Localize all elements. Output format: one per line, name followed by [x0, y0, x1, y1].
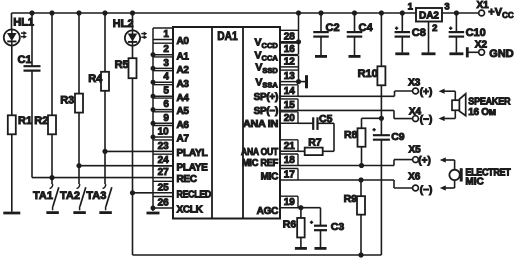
label C2	[326, 22, 340, 34]
svg-text:10: 10	[158, 127, 170, 138]
switch TA3	[99, 184, 112, 213]
label X6 minus	[420, 185, 433, 196]
wire top supply rail	[12, 12, 479, 14]
microphone BM1	[449, 168, 461, 181]
svg-text:28: 28	[284, 31, 296, 42]
polarity C8	[395, 27, 398, 30]
resistor R8	[358, 128, 366, 147]
svg-text:RECLED: RECLED	[177, 189, 212, 200]
svg-text:XCLK: XCLK	[177, 205, 204, 216]
svg-text:A1: A1	[177, 51, 190, 62]
node A-bus pin 9	[151, 121, 156, 126]
wire R10 down	[380, 85, 382, 135]
svg-text:2: 2	[432, 23, 437, 34]
svg-text:X1: X1	[476, 0, 489, 11]
svg-text:9: 9	[163, 113, 169, 124]
svg-text:1: 1	[408, 2, 414, 13]
wire node to pin25	[133, 192, 154, 194]
node R9 bottom	[358, 252, 363, 257]
terminal X5	[413, 157, 419, 163]
node RECLED	[130, 190, 135, 195]
pin names right	[241, 37, 278, 217]
label C9	[391, 131, 405, 143]
svg-text:R10: R10	[358, 68, 378, 80]
svg-text:14: 14	[284, 86, 296, 97]
svg-text:TA3: TA3	[86, 190, 106, 202]
label HL2	[113, 18, 134, 30]
polarity C3	[310, 221, 313, 224]
svg-text:A5: A5	[177, 106, 190, 117]
LED HL1	[4, 30, 27, 46]
node rail-C1	[29, 10, 34, 15]
node rail-R3	[76, 10, 81, 15]
wire C5-R7	[318, 123, 335, 151]
capacitor C3	[314, 226, 327, 231]
wire C1 top lead	[31, 13, 33, 66]
wire C9 down	[380, 140, 382, 255]
pin 1 DA2	[408, 2, 414, 13]
resistor R2	[48, 115, 56, 134]
svg-text:20: 20	[284, 113, 296, 124]
svg-text:X2: X2	[475, 39, 488, 50]
ground XCLK	[147, 208, 160, 213]
svg-text:(+): (+)	[420, 87, 433, 98]
svg-text:C9: C9	[391, 131, 405, 143]
terminal X4	[413, 116, 419, 122]
label X3 plus	[420, 87, 433, 98]
wire SP- to X4	[298, 110, 413, 118]
resistor R10	[377, 66, 385, 85]
svg-text:C2: C2	[326, 22, 340, 34]
wire pin19	[298, 207, 321, 209]
node rail-pin28	[296, 10, 301, 15]
wire R2-TA1	[51, 134, 53, 184]
node rail-C4	[352, 10, 357, 15]
svg-text:MIC: MIC	[261, 172, 279, 183]
node rail-R2	[49, 10, 54, 15]
wire SP+ to X3	[298, 91, 413, 96]
label X3	[408, 78, 421, 89]
wire R6 bottom	[300, 238, 302, 248]
node A-bus pin 10	[151, 135, 156, 140]
wire rail-R3	[78, 13, 80, 94]
svg-text:(−): (−)	[420, 115, 433, 126]
wire R7-pin21	[298, 150, 305, 152]
wire node to pin24	[79, 165, 153, 167]
wire rail-R10	[380, 13, 382, 66]
label C1	[18, 54, 32, 66]
ground R6	[295, 247, 307, 250]
label R2	[34, 115, 48, 127]
capacitor C1	[24, 66, 41, 70]
capacitor C4	[347, 32, 363, 37]
svg-text:C3: C3	[331, 221, 345, 233]
op-amp U1 DA1 body	[173, 27, 280, 219]
label X1	[476, 0, 489, 11]
wire R1-gnd	[11, 134, 13, 211]
switch TA2	[73, 184, 86, 213]
node R10-R8-C9	[379, 116, 384, 121]
ground C4	[349, 55, 361, 58]
svg-text:A6: A6	[177, 120, 190, 131]
label R7	[308, 136, 322, 148]
svg-text:R4: R4	[88, 73, 103, 85]
svg-text:R3: R3	[60, 95, 74, 107]
svg-text:DA2: DA2	[419, 11, 439, 22]
capacitor C10	[449, 32, 465, 37]
svg-text:HL2: HL2	[113, 18, 134, 30]
node REC	[49, 175, 54, 180]
wire C3 top lead	[320, 208, 322, 226]
node rail-R4	[102, 10, 107, 15]
node A-bus pin 5	[151, 94, 156, 99]
resistor R7	[305, 148, 323, 156]
wire HL1 branch	[11, 13, 13, 30]
label DA1	[217, 29, 238, 43]
label C4	[359, 22, 374, 34]
svg-text:SP(−): SP(−)	[254, 106, 278, 117]
svg-text:2: 2	[163, 44, 169, 55]
svg-text:13: 13	[284, 71, 296, 82]
node A-bus pin 3	[151, 66, 156, 71]
svg-text:26: 26	[158, 198, 170, 209]
node rail-C2	[318, 10, 323, 15]
node XCLK gnd	[151, 206, 156, 211]
label +Vcc	[488, 7, 514, 20]
label TA3	[86, 190, 106, 202]
terminal X3	[413, 88, 419, 94]
resistor R9	[357, 196, 365, 215]
wire bottom rail	[133, 254, 382, 256]
node R8-MICREF	[359, 163, 364, 168]
resistor R5	[129, 58, 137, 78]
switch TA1	[46, 184, 59, 213]
label C10	[466, 27, 486, 39]
svg-text:R2: R2	[34, 115, 48, 127]
label GND	[489, 48, 514, 60]
wire R5 down	[132, 78, 134, 255]
resistor R3	[75, 94, 83, 113]
capacitor C8	[395, 32, 411, 37]
svg-text:PLAYE: PLAYE	[177, 162, 209, 173]
node pin13	[296, 79, 301, 84]
ground C10	[449, 52, 463, 55]
ground DA2	[422, 52, 436, 55]
svg-text:R1: R1	[18, 115, 32, 127]
label R10	[358, 68, 378, 80]
node A-bus pin 4	[151, 80, 156, 85]
node pin28	[296, 39, 301, 44]
label TA1	[33, 190, 53, 202]
svg-text:TA2: TA2	[60, 190, 80, 202]
ground C8	[395, 52, 409, 55]
svg-text:A7: A7	[177, 134, 190, 145]
label C8	[412, 27, 426, 39]
svg-text:ANA IN: ANA IN	[243, 119, 278, 130]
svg-text:3: 3	[444, 2, 449, 13]
svg-text:24: 24	[158, 155, 170, 166]
svg-text:(−): (−)	[420, 185, 433, 196]
wire R9 top lead	[360, 180, 362, 196]
svg-text:25: 25	[158, 182, 170, 193]
svg-text:REC: REC	[177, 174, 197, 185]
capacitor C5	[313, 117, 317, 130]
wire HL1-R1	[11, 46, 13, 116]
svg-text:MIC REF: MIC REF	[242, 158, 278, 169]
node A-bus pin 6	[151, 107, 156, 112]
wire VSS tie	[298, 55, 300, 81]
wire MICREF to X5	[298, 160, 413, 166]
node PLAYL	[102, 149, 107, 154]
node PLAYE	[76, 163, 81, 168]
svg-text:27: 27	[158, 167, 170, 178]
pin names left	[177, 36, 212, 216]
svg-text:3: 3	[163, 58, 169, 69]
speaker SPEAKER	[452, 94, 466, 116]
speaker arrows	[439, 89, 456, 122]
svg-text:X6: X6	[408, 172, 421, 183]
terminal X1	[479, 10, 485, 16]
wire C8 leads	[401, 13, 403, 52]
wire REC node to pin27	[53, 177, 153, 179]
label R1	[18, 115, 32, 127]
svg-text:5: 5	[163, 86, 169, 97]
node rail-C8	[400, 10, 405, 15]
svg-text:6: 6	[163, 99, 169, 110]
svg-text:HL1: HL1	[13, 17, 34, 29]
svg-text:A4: A4	[177, 93, 190, 104]
svg-text:MIC: MIC	[465, 177, 483, 188]
svg-text:16 Ом: 16 Ом	[468, 107, 496, 118]
wire C2 leads	[320, 13, 322, 55]
svg-text:18: 18	[284, 155, 296, 166]
node rail-C10	[454, 10, 459, 15]
polarity C10	[449, 27, 452, 30]
wire pin20-C5	[298, 122, 313, 124]
wire node to pin23	[105, 150, 153, 152]
svg-text:17: 17	[284, 170, 296, 181]
node AGC	[298, 205, 303, 210]
label R9	[344, 193, 358, 205]
svg-text:19: 19	[284, 197, 296, 208]
svg-text:PLAYL: PLAYL	[177, 148, 208, 159]
wire R6 top lead	[300, 208, 302, 218]
svg-text:15: 15	[284, 100, 296, 111]
svg-text:SP(+): SP(+)	[254, 92, 278, 103]
wire R8 bottom lead	[361, 147, 363, 166]
svg-text:C1: C1	[18, 54, 32, 66]
pin 2 DA2	[432, 23, 437, 34]
svg-text:R9: R9	[344, 193, 358, 205]
svg-text:ANA OUT: ANA OUT	[241, 147, 278, 158]
svg-text:1: 1	[163, 29, 169, 40]
polarity C9	[372, 128, 375, 131]
label X5 plus	[418, 155, 431, 166]
svg-text:16: 16	[284, 44, 296, 55]
svg-text:C10: C10	[466, 27, 486, 39]
ground C2	[315, 55, 327, 58]
svg-text:DA1: DA1	[217, 29, 238, 43]
label X4 minus	[420, 115, 433, 126]
pin 3 DA2	[444, 2, 449, 13]
svg-text:4: 4	[163, 72, 169, 83]
node rail-HL2	[130, 10, 135, 15]
svg-text:(+): (+)	[418, 155, 431, 166]
pin numbers right	[284, 31, 296, 208]
wire C1 to REC node	[32, 71, 51, 178]
wire R4-TA3	[104, 91, 106, 184]
label R5	[115, 59, 129, 71]
label C3	[331, 221, 345, 233]
node R9-MIC	[358, 177, 363, 182]
label R8	[344, 129, 358, 141]
svg-text:C8: C8	[412, 27, 426, 39]
label C5	[319, 113, 333, 125]
wire DA2 pin2	[428, 22, 430, 53]
svg-text:R8: R8	[344, 129, 358, 141]
label MIC	[465, 177, 483, 188]
wire C3 bottom	[320, 230, 322, 247]
electret mic arrows	[440, 157, 455, 190]
svg-text:A2: A2	[177, 65, 190, 76]
terminal X2	[467, 47, 484, 57]
ground R1	[3, 212, 20, 215]
label ELECTRET	[465, 168, 510, 179]
wire R9 bottom lead	[360, 215, 362, 255]
label R3	[60, 95, 74, 107]
resistor R4	[101, 72, 109, 91]
wire C4 leads	[354, 13, 356, 55]
svg-text:23: 23	[158, 141, 170, 152]
regulator DA2	[416, 8, 442, 22]
label TA2	[60, 190, 80, 202]
node rail-R10	[379, 10, 384, 15]
wire R3-TA2	[78, 113, 80, 184]
ground VSSA	[299, 75, 307, 88]
wire rail-R4	[104, 13, 106, 72]
svg-text:C4: C4	[359, 22, 374, 34]
label X5	[408, 144, 421, 155]
svg-text:R5: R5	[115, 59, 129, 71]
label X6	[408, 172, 421, 183]
label X4	[409, 106, 422, 117]
svg-text:12: 12	[284, 56, 296, 67]
svg-text:R6: R6	[283, 219, 297, 231]
svg-text:+VCC: +VCC	[488, 7, 514, 20]
wire C10 leads	[455, 13, 457, 52]
svg-text:A3: A3	[177, 79, 190, 90]
node A-bus pin 2	[151, 52, 156, 57]
wire rail-R2	[51, 13, 53, 115]
label X2	[475, 39, 488, 50]
capacitor C2	[313, 32, 329, 37]
label R6	[283, 219, 297, 231]
wire rail to VCC pins	[298, 13, 300, 55]
wire right pin boxes	[280, 30, 298, 207]
ground C3	[315, 247, 327, 250]
resistor R1	[8, 115, 16, 134]
svg-text:A0: A0	[177, 36, 190, 47]
label R4	[88, 73, 103, 85]
svg-text:X5: X5	[408, 144, 421, 155]
label HL1	[13, 17, 34, 29]
wire R8 top lead	[362, 118, 382, 128]
LED HL2	[125, 30, 147, 45]
label SPEAKER	[468, 97, 511, 108]
svg-text:21: 21	[284, 141, 296, 152]
label DA2	[419, 11, 439, 22]
label 16 Om	[468, 107, 496, 118]
capacitor C9	[373, 135, 390, 140]
pin numbers left	[158, 29, 170, 209]
svg-text:R7: R7	[308, 136, 322, 148]
resistor R6	[297, 218, 305, 238]
wire left pin box column / address bus	[153, 28, 173, 208]
terminal X6	[413, 185, 419, 191]
wire HL2-R5	[132, 45, 134, 58]
svg-text:AGC: AGC	[257, 206, 278, 217]
wire MIC to X6	[298, 180, 413, 188]
svg-text:GND: GND	[489, 48, 514, 60]
wire rail-HL2	[132, 13, 134, 31]
svg-text:TA1: TA1	[33, 190, 53, 202]
